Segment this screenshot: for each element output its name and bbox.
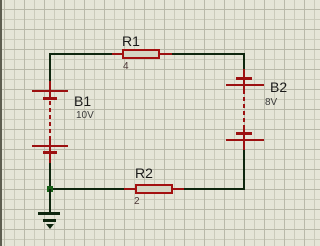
wire right lower vertical (B2 to bottom corner) <box>243 150 245 190</box>
value 8V (B2) <box>265 97 277 108</box>
wire bottom right segment (R2 to B2 bottom) <box>184 188 245 190</box>
left window edge strip <box>0 0 2 246</box>
ground triangle <box>46 224 54 229</box>
B2 cell2 short plate <box>236 132 252 135</box>
B2 upper red lead <box>243 69 245 90</box>
B1 cell2 short plate <box>43 151 57 154</box>
label B2 <box>270 79 287 95</box>
B1 cell2 long plate <box>32 145 68 147</box>
wire right upper vertical (corner to B2) <box>243 53 245 69</box>
value 10V (B1) <box>76 110 94 121</box>
resistor R2 <box>124 188 135 190</box>
label R2 <box>135 165 153 181</box>
label B1 <box>74 93 91 109</box>
resistor R1 <box>112 53 122 55</box>
junction dot (node at B1- / R2 / ground) <box>47 186 53 192</box>
ground bar 1 <box>38 212 60 215</box>
wire top left segment (node from B1 top to R1) <box>49 53 113 55</box>
B1 upper red lead <box>49 81 51 100</box>
wire left lower vertical (B1 to junction) <box>49 162 51 190</box>
value 4 (R1) <box>123 61 129 72</box>
value 2 (R2) <box>134 196 140 207</box>
wire top right segment (R1 to B2 top) <box>172 53 245 55</box>
B2 cell1 long plate <box>226 84 264 86</box>
B1 cell1 long plate <box>32 90 68 92</box>
B2 lower red section <box>243 128 245 150</box>
B2 cell2 long plate <box>226 139 264 141</box>
B1 cell1 short plate <box>43 97 57 100</box>
wire bottom left segment (junction to R2) <box>49 188 125 190</box>
wire left upper vertical (corner to B1) <box>49 53 51 82</box>
B2 cell1 short plate <box>236 77 252 80</box>
ground stub wire <box>49 189 51 213</box>
B1 inter-cell dashed line <box>49 101 51 139</box>
B1 lower red section <box>49 139 51 163</box>
B2 inter-cell dashed line <box>243 90 245 128</box>
ground bar 2 <box>43 219 56 222</box>
label R1 <box>122 33 140 49</box>
